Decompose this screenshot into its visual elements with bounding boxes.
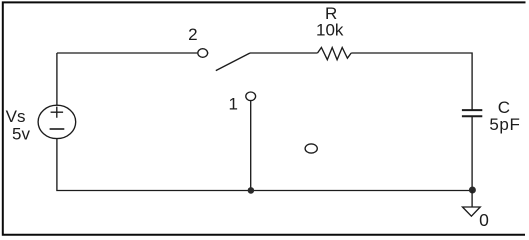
wire: source top to top rail bbox=[56, 53, 58, 105]
svg-text:10k: 10k bbox=[316, 21, 344, 40]
svg-text:5v: 5v bbox=[12, 125, 30, 144]
resistor R bbox=[318, 48, 352, 60]
voltage source Vs bbox=[38, 105, 76, 138]
junction dot node 0 bbox=[469, 187, 476, 194]
wire: blade to resistor bbox=[250, 52, 318, 54]
wire: capacitor down to bottom rail bbox=[471, 116, 473, 190]
switch blade bbox=[216, 53, 250, 71]
wire: terminal 1 down to bottom rail bbox=[250, 101, 252, 191]
switch terminal 2 bbox=[198, 49, 208, 58]
wire: resistor to top-right corner and down bbox=[351, 53, 472, 110]
stray switch pole circle bbox=[305, 144, 317, 153]
wire: bottom rail bbox=[57, 139, 472, 191]
wire: top rail left segment to switch terminal 2 bbox=[57, 52, 197, 54]
capacitor C bbox=[462, 110, 482, 116]
junction dot node 1 bbox=[248, 187, 255, 194]
switch terminal 1 bbox=[246, 92, 256, 101]
ground bbox=[463, 207, 481, 216]
svg-text:2: 2 bbox=[188, 25, 197, 44]
terminal 2 right stub bbox=[207, 52, 208, 54]
svg-text:5pF: 5pF bbox=[489, 115, 520, 134]
svg-text:0: 0 bbox=[479, 210, 489, 230]
svg-text:1: 1 bbox=[228, 95, 237, 114]
ground stem bbox=[471, 191, 473, 208]
svg-text:Vs: Vs bbox=[6, 107, 26, 126]
